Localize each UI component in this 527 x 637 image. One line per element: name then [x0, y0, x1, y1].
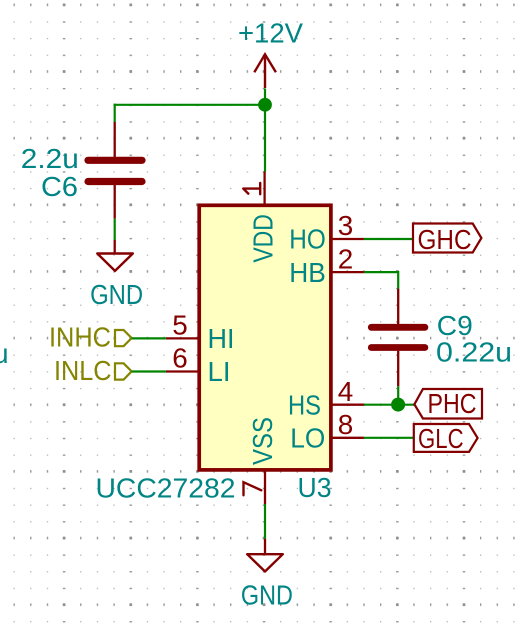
svg-text:PHC: PHC	[428, 388, 477, 419]
wire pin8 to GLC	[364, 437, 414, 439]
wire C9 to junction B	[397, 386, 399, 404]
hierarchical label INLC	[54, 355, 132, 386]
svg-text:0.22u: 0.22u	[436, 337, 512, 368]
svg-text:4: 4	[338, 376, 354, 407]
svg-text:HO: HO	[289, 224, 326, 255]
wire from junction to C6 column (horizontal)	[114, 104, 265, 106]
ground GND2 pin	[264, 539, 266, 554]
svg-text:6: 6	[172, 343, 188, 374]
wire INHC to pin5	[132, 337, 166, 339]
junction B (HS node)	[391, 398, 405, 412]
ground GND1 triangle	[97, 254, 133, 271]
wire C6 to GND1	[114, 219, 116, 240]
pin 6 LI	[166, 343, 231, 388]
global label GHC	[413, 224, 481, 255]
svg-text:LO: LO	[290, 423, 325, 454]
svg-text:u: u	[0, 338, 9, 369]
svg-text:INLC: INLC	[54, 355, 112, 386]
capacitor C6 plate 1	[88, 157, 142, 164]
svg-text:VDD: VDD	[248, 214, 279, 263]
hierarchical label INHC	[49, 322, 132, 353]
op-amp driver U3 body UCC27282	[199, 205, 331, 470]
global label PHC	[414, 388, 482, 419]
pin 5 HI	[166, 310, 235, 355]
svg-text:HI: HI	[208, 323, 235, 354]
svg-text:GHC: GHC	[418, 224, 472, 255]
wire pin2 to C9 (horizontal)	[364, 271, 398, 273]
wire pin7 to GND2	[264, 504, 266, 539]
pin 3 HO	[289, 210, 364, 255]
wire down C6 column	[114, 104, 116, 122]
svg-text:UCC27282: UCC27282	[96, 473, 236, 504]
capacitor C9 top pin	[397, 289, 399, 324]
capacitor C6 plate 2	[88, 178, 142, 185]
svg-text:2.2u: 2.2u	[21, 143, 79, 174]
svg-text:2: 2	[338, 243, 354, 274]
wire pin2 to C9 (vertical)	[397, 271, 399, 289]
pin 2 HB	[289, 243, 364, 288]
svg-text:HS: HS	[288, 389, 321, 420]
ground GND2 triangle	[247, 554, 283, 571]
svg-text:U3: U3	[298, 472, 332, 503]
pin 4 HS	[288, 376, 364, 421]
capacitor C9 plate 1	[371, 324, 425, 331]
power symbol +12V stem	[264, 55, 266, 89]
svg-text:3: 3	[338, 210, 354, 241]
wire pin3 to GHC	[364, 238, 414, 240]
pin 7 VSS (bottom)	[244, 417, 279, 504]
wire +12V pin to junction to pin1	[264, 89, 266, 172]
svg-text:GND: GND	[241, 580, 293, 611]
svg-text:GLC: GLC	[418, 423, 464, 454]
power symbol +12V arrow	[254, 54, 276, 72]
capacitor C6 bottom pin	[114, 185, 116, 219]
svg-text:HB: HB	[289, 257, 326, 288]
svg-text:INHC: INHC	[49, 322, 111, 353]
svg-text:5: 5	[172, 310, 188, 341]
junction A (+12V node)	[258, 98, 272, 112]
svg-text:GND: GND	[90, 279, 143, 310]
svg-text:8: 8	[338, 409, 354, 440]
pin 1 VDD (top)	[243, 172, 278, 263]
svg-text:VSS: VSS	[247, 417, 278, 465]
global label GLC	[414, 423, 478, 454]
svg-text:LI: LI	[208, 356, 231, 387]
ground GND1 pin	[114, 240, 116, 254]
svg-text:C6: C6	[41, 171, 78, 202]
wire INLC to pin6	[132, 370, 166, 372]
pin 8 LO	[290, 409, 364, 454]
capacitor C9 bottom pin	[397, 351, 399, 387]
capacitor C6 top pin	[114, 122, 116, 157]
wire pin4 to PHC	[364, 404, 415, 406]
capacitor C9 plate 2	[371, 344, 425, 351]
svg-text:+12V: +12V	[238, 17, 303, 48]
